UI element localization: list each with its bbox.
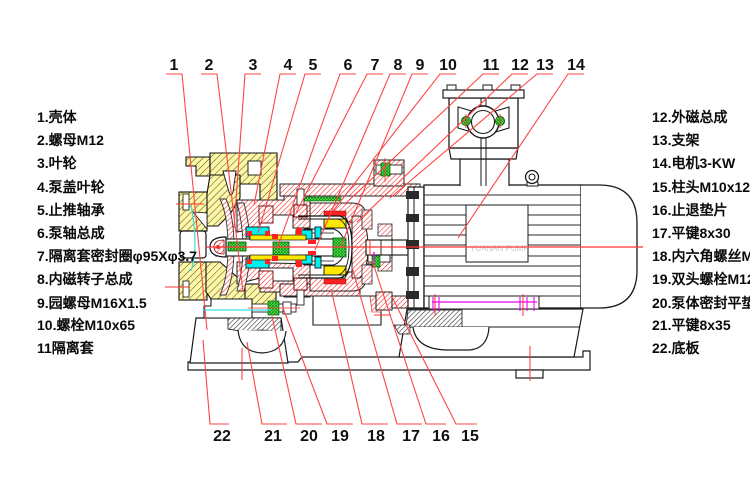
red tick at foot bolt — [374, 314, 391, 316]
leader 5 — [258, 74, 321, 233]
thrust ring cyan lower — [315, 257, 321, 268]
leader 8 — [315, 74, 406, 250]
pump casing lower volute wall — [206, 262, 252, 299]
pump casing top band — [210, 153, 277, 200]
bearing cyan upper-left (item 5) — [246, 227, 269, 237]
seal bits red — [247, 228, 316, 267]
top callout numbers — [170, 58, 179, 74]
pump cover upper band (item 4, red section) — [237, 196, 310, 232]
motor left flange — [408, 187, 424, 308]
pump casing upper volute wall — [206, 175, 240, 226]
outer magnet cup top band (item 12) — [310, 203, 366, 222]
shaft key strip (item 21, green) — [228, 242, 246, 251]
leader 20 — [272, 316, 322, 424]
pump shaft (item 6) — [216, 239, 336, 256]
leader 22 — [203, 340, 229, 424]
magenta foot line — [432, 301, 537, 303]
bracket support foot hatch — [370, 296, 381, 312]
volute throat white wedge — [223, 171, 236, 195]
outer rotor hub red bottom — [362, 265, 372, 284]
gasket strip (item 20, green) — [303, 197, 341, 201]
isolation sleeve (item 11) — [298, 216, 352, 278]
bearing cyan lower-left — [246, 258, 269, 268]
leader 14 — [458, 74, 584, 238]
terminal box body — [449, 98, 518, 148]
motor nameplate — [466, 205, 528, 262]
gland circle — [467, 106, 499, 138]
outer magnets yellow top — [324, 219, 346, 228]
leader 4 — [254, 74, 296, 205]
leader 11 — [345, 74, 499, 204]
outer rotor hub red top — [362, 210, 372, 229]
shaft sleeve yellow lower — [250, 255, 306, 260]
leader 19 — [283, 308, 353, 424]
terminal box lid — [443, 90, 524, 98]
impeller back shroud — [237, 203, 250, 291]
leader 18 — [331, 289, 388, 424]
bracket rear flange upper — [374, 160, 404, 186]
motor foot section (dark hatch) — [406, 310, 462, 327]
leader 7 — [296, 74, 383, 213]
right part list labels — [652, 110, 727, 124]
left part list labels — [37, 110, 77, 124]
bolt M10x65 lower — [297, 290, 304, 305]
gland wings — [458, 107, 475, 133]
leader 3 — [234, 74, 261, 228]
leader 16 — [372, 260, 446, 424]
pump casing suction flange upper — [179, 192, 207, 231]
red tick on motor shaft — [369, 240, 371, 255]
stud M12 at casing foot (item 19) — [248, 301, 300, 315]
bracket bore wall lower — [378, 258, 392, 271]
outer magnets yellow bottom — [324, 266, 346, 275]
lid bolts — [447, 85, 520, 90]
leader 2 — [201, 74, 243, 292]
eyebolt — [527, 182, 538, 186]
leader 21 — [247, 342, 287, 424]
leader 10 — [333, 74, 456, 211]
leader 17 — [352, 267, 422, 424]
leader 13 — [390, 74, 553, 198]
baseplate (item 22) — [188, 351, 590, 370]
motor feet plate — [429, 296, 539, 309]
rear flange bolt upper (item 15) — [376, 158, 402, 182]
baseplate foot pad — [516, 370, 543, 378]
bolt casing M12 upper (item 2) — [259, 206, 273, 223]
leader 12 — [357, 74, 528, 222]
bracket bore wall upper — [378, 224, 392, 236]
bracket lower web — [356, 258, 387, 286]
motor pedestal corner hatch — [394, 325, 410, 334]
round nut (item 9, green) — [333, 238, 346, 257]
bearing cyan lower-right — [296, 255, 312, 264]
svg-text:YUANAN PUMP: YUANAN PUMP — [470, 244, 529, 253]
pump pedestal arch window — [238, 330, 286, 353]
bottom callout numbers — [213, 429, 231, 445]
leader 1 — [166, 74, 207, 330]
pump casing rear wall bottom — [245, 284, 276, 308]
wing green bolts — [461, 114, 504, 128]
green spacer on shaft — [273, 242, 289, 257]
motor pedestal arch window — [413, 327, 489, 350]
bolt casing M12 lower — [259, 271, 273, 288]
inner rotor body (item 8) — [304, 229, 345, 265]
motor pedestal — [399, 309, 583, 357]
pump cover lower band — [237, 262, 310, 297]
bracket rear flange lower — [376, 292, 392, 310]
terminal box neck — [460, 159, 509, 186]
thrust ring cyan upper — [315, 227, 321, 238]
pump casing top tab (casing flange) — [186, 157, 210, 176]
leader 15 — [392, 297, 477, 424]
bracket bottom wall — [280, 284, 420, 308]
inner rotor detail lines — [306, 232, 334, 234]
bearing cyan upper-right — [296, 230, 312, 239]
motor end cap (fan cover) — [581, 185, 637, 308]
conduit lines — [480, 98, 482, 186]
shaft sleeve yellow upper — [250, 235, 306, 240]
bracket support foot — [313, 296, 381, 325]
top leader lines — [166, 74, 584, 330]
outer magnet cup bottom band — [310, 272, 366, 291]
bottom leader lines — [203, 260, 477, 424]
suction bore — [180, 231, 206, 258]
red centerline — [206, 246, 643, 248]
rear flange bolt lower — [368, 252, 390, 268]
terminal box flare — [449, 148, 518, 159]
pump pedestal sectioned rib (dark hatch) — [228, 318, 281, 332]
bracket top wall (item 13) — [280, 184, 420, 196]
motor body (item 14) — [424, 185, 581, 308]
leader 9 — [340, 74, 428, 248]
pump pedestal — [190, 318, 288, 363]
motor tie-rod nuts — [406, 191, 419, 299]
red vertical at baseplate pads — [241, 348, 243, 380]
shaft nose cap — [210, 237, 226, 257]
motor cooling fins — [424, 195, 581, 296]
cyan seal circle arc — [191, 205, 195, 271]
motor shaft stub — [366, 240, 412, 255]
casing foot — [204, 299, 252, 318]
magenta mark — [373, 252, 375, 260]
outer magnet cup right wall — [352, 216, 368, 278]
impeller front shroud (item 3, red section) — [220, 199, 234, 295]
red dimension tick lower flange — [165, 286, 190, 288]
bolt M10x65 upper (item 10) — [297, 189, 304, 205]
red dimension tick upper flange — [176, 203, 204, 205]
red ticks at motor foot bolts — [434, 294, 436, 316]
pump casing suction flange lower — [179, 262, 207, 300]
leader 6 — [277, 74, 356, 249]
cyan dimension line — [203, 309, 271, 311]
